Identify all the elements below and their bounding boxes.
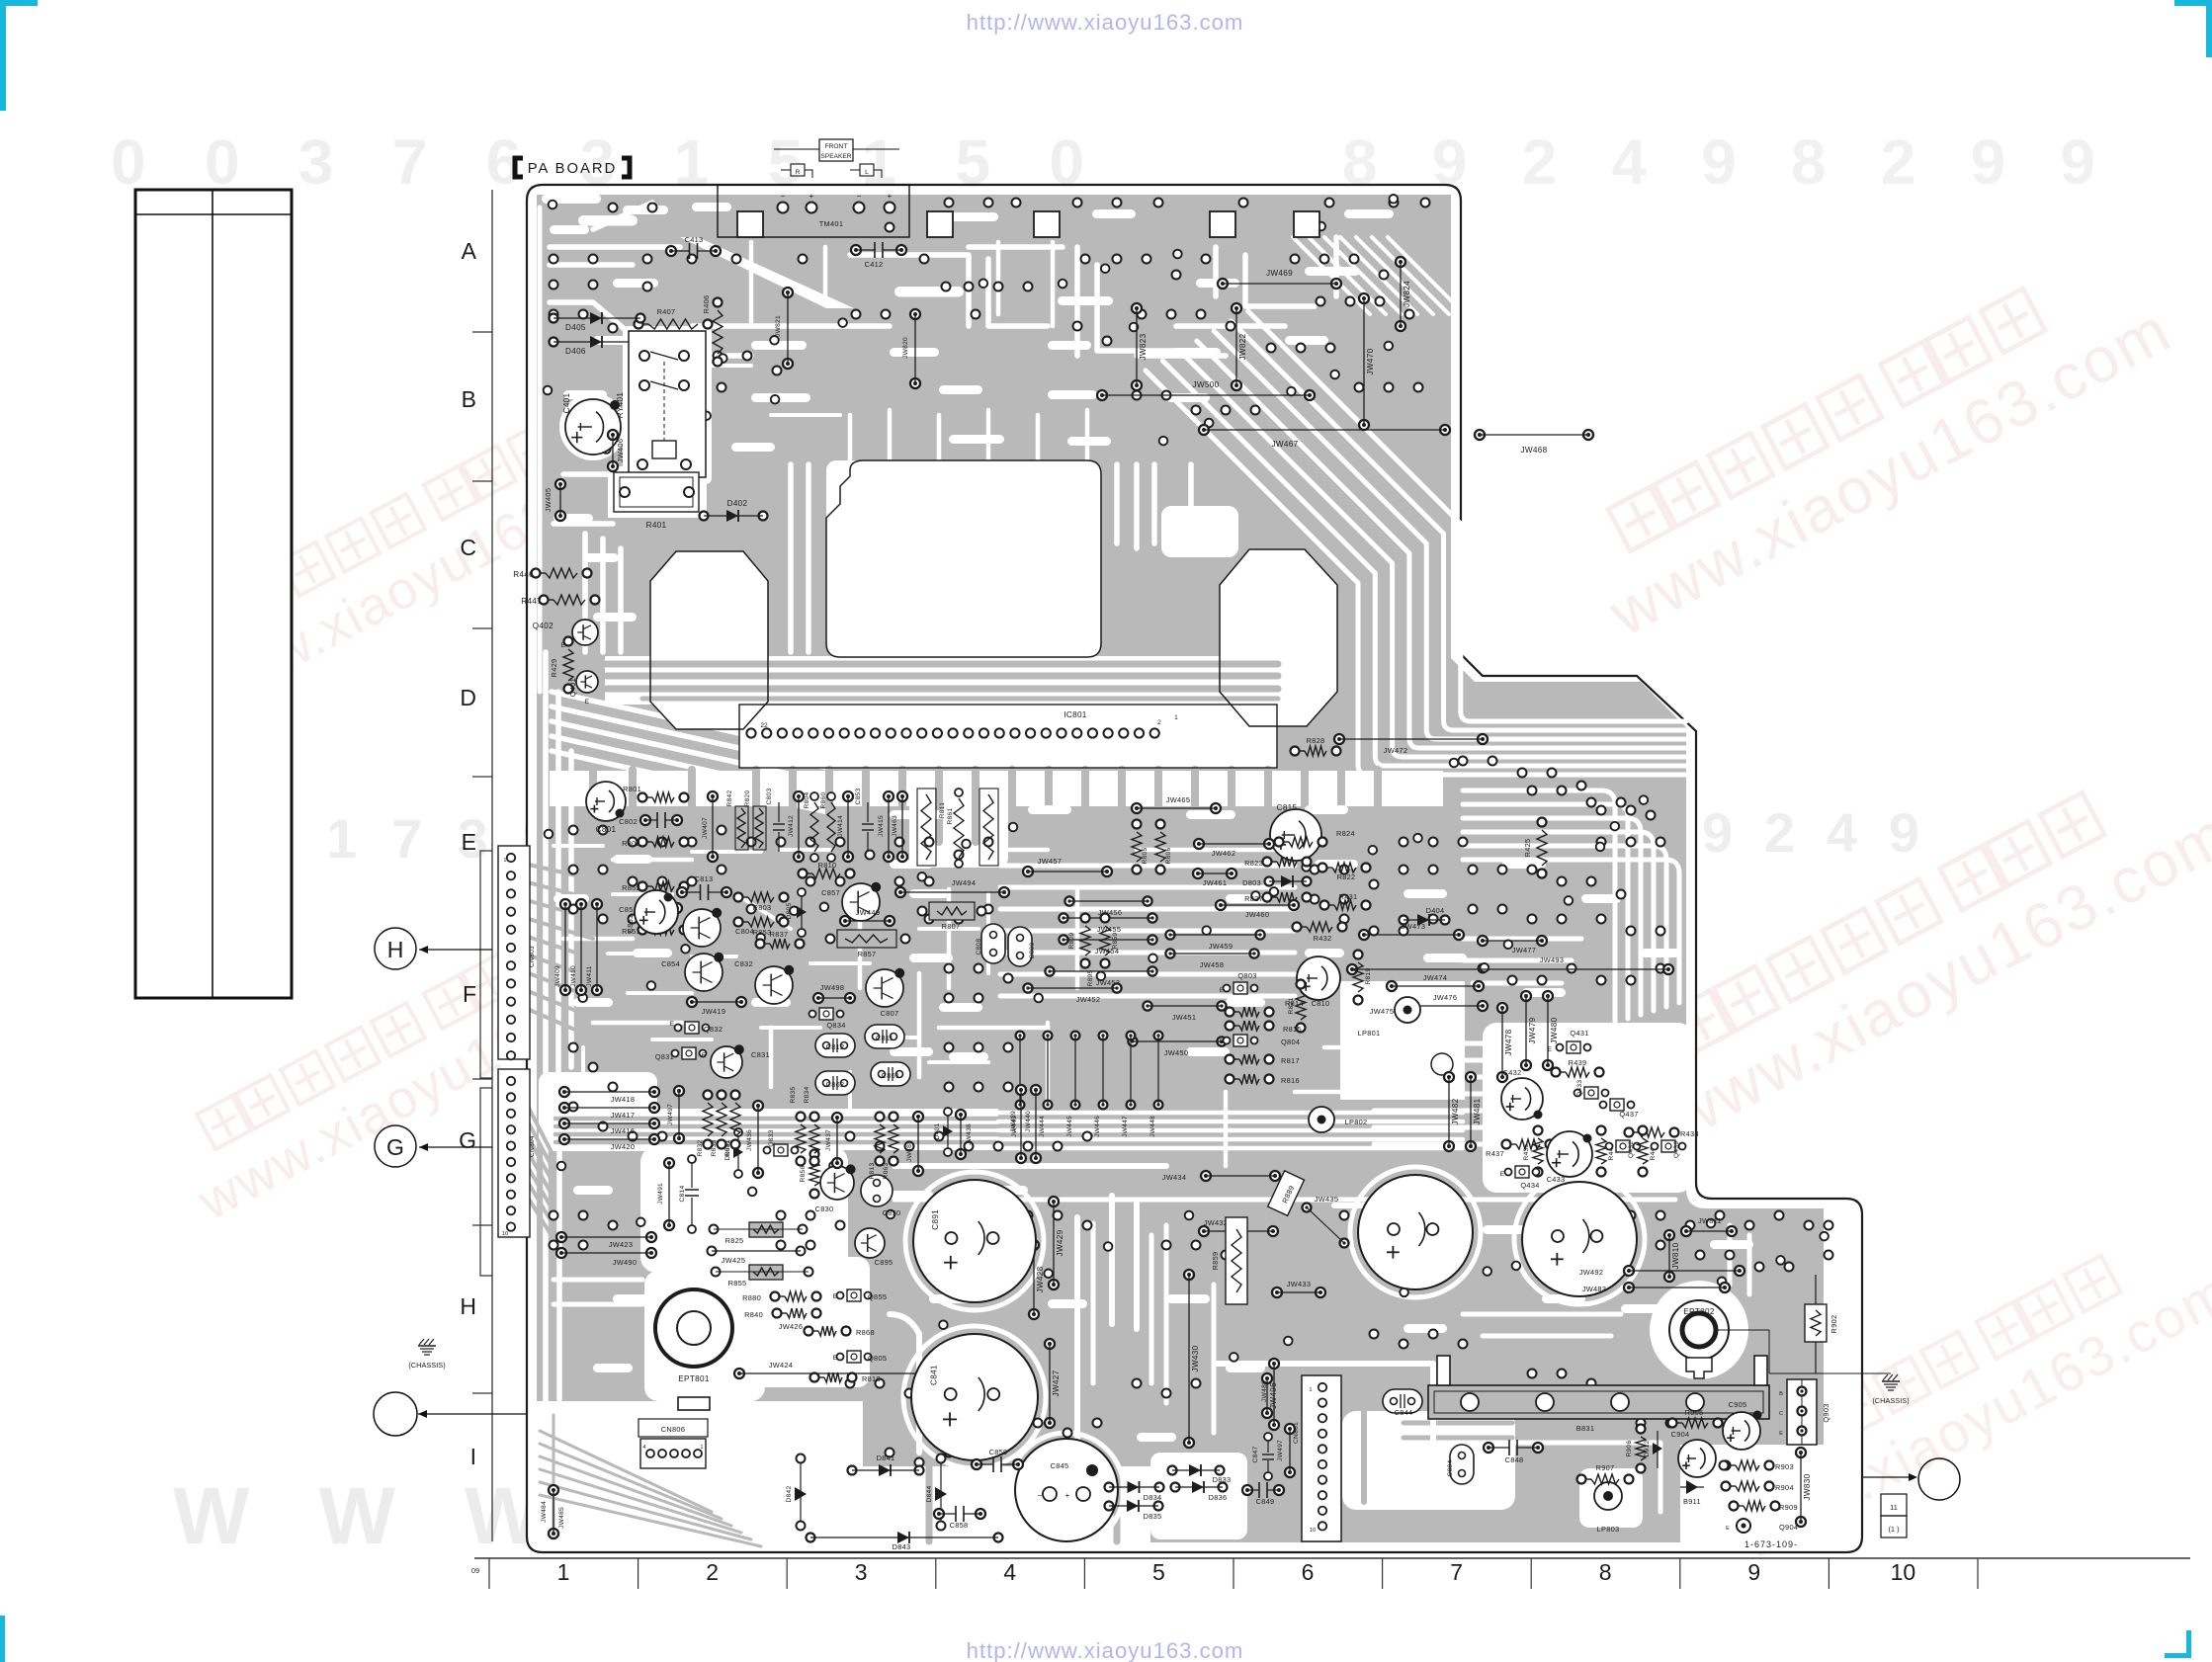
pot EPT801 [655, 1289, 732, 1367]
diode D404 [1400, 916, 1408, 925]
svg-text:LP803: LP803 [1597, 1525, 1620, 1534]
resistor R909 [1730, 1502, 1739, 1511]
svg-text:JW458: JW458 [1200, 960, 1225, 969]
resistor R828 [1291, 747, 1300, 756]
svg-text:E: E [585, 699, 590, 706]
resistor R807 [929, 902, 975, 920]
svg-text:5: 5 [1152, 1559, 1165, 1585]
jumper JW437 [832, 1113, 842, 1122]
svg-text:C849: C849 [1256, 1497, 1275, 1506]
svg-text:JW419: JW419 [702, 1007, 726, 1016]
svg-text:JW484: JW484 [541, 1501, 548, 1523]
transistor Q402 [572, 620, 598, 645]
svg-text:C851: C851 [626, 915, 635, 934]
capacitor C830 [820, 1166, 854, 1200]
capacitor C811 [865, 1025, 904, 1048]
svg-text:R806: R806 [1165, 847, 1172, 864]
svg-text:C844: C844 [1395, 1408, 1413, 1417]
svg-text:JW407: JW407 [702, 817, 709, 839]
callout circle bottom-left [374, 1392, 417, 1436]
chassis symbol right [1882, 1380, 1900, 1382]
diode D406 [550, 338, 558, 347]
capacitor C894 [1450, 1445, 1474, 1484]
svg-text:C854: C854 [661, 959, 680, 968]
svg-text:LP801: LP801 [1358, 1029, 1381, 1038]
pink watermark right upper [1568, 237, 2182, 649]
svg-text:JW418: JW418 [611, 1095, 636, 1104]
svg-text:Q805: Q805 [868, 1354, 887, 1363]
diode D841 [848, 1466, 857, 1475]
svg-text:JW810: JW810 [1671, 1242, 1680, 1269]
capacitor C854 [685, 954, 723, 991]
svg-text:JW490: JW490 [613, 1258, 638, 1267]
jumper JW477 [1478, 936, 1488, 946]
grid ruler bottom [474, 1557, 2190, 1559]
svg-text:E: E [1220, 1039, 1225, 1045]
capacitor C832 [755, 966, 793, 1004]
resistors R805 R806 [1133, 820, 1142, 829]
svg-text:JW478: JW478 [1504, 1029, 1513, 1055]
sheet boxes [1881, 1494, 1907, 1516]
svg-text:C848: C848 [1505, 1455, 1524, 1464]
jumper JW830 [1796, 1448, 1806, 1457]
pink watermark left lower [163, 887, 676, 1231]
jumper JW468 [1475, 430, 1485, 440]
svg-text:JW492: JW492 [1579, 1268, 1604, 1277]
svg-text:D841: D841 [877, 1454, 895, 1462]
relay RY401 [629, 331, 706, 477]
transistor Q439 [1661, 1140, 1675, 1152]
resistor R435 [1534, 1126, 1543, 1135]
svg-text:I: I [470, 1444, 476, 1469]
resistor R447 [540, 596, 549, 605]
jumper JW428 [1029, 1240, 1039, 1250]
svg-text:C808: C808 [976, 938, 982, 955]
svg-text:JW500: JW500 [1193, 380, 1220, 389]
svg-text:FRONT: FRONT [825, 143, 848, 150]
svg-text:R813: R813 [869, 1162, 876, 1179]
resistors R835 R834 [797, 1113, 806, 1122]
resistor R856 [810, 1150, 819, 1159]
resistor R816 [1226, 1075, 1234, 1084]
svg-text:G: G [386, 1134, 404, 1160]
svg-text:JW491: JW491 [657, 1183, 664, 1205]
svg-text:R909: R909 [1779, 1503, 1798, 1512]
lamp LP802 [1309, 1107, 1334, 1132]
pink watermark bottom right [1703, 1210, 2212, 1572]
jumper JW427 [1045, 1339, 1055, 1349]
trace separation channels [516, 194, 1753, 1547]
jumper JW429 [1049, 1197, 1059, 1206]
svg-text:1: 1 [1174, 714, 1178, 721]
svg-text:JW467: JW467 [1272, 440, 1299, 449]
resistor block R825 [749, 1222, 783, 1237]
capacitor C849 [1242, 1485, 1252, 1495]
svg-text:D: D [460, 685, 476, 710]
pink watermark mid [825, 675, 1338, 1019]
svg-text:Q402: Q402 [533, 622, 553, 630]
diode D804 [737, 1136, 739, 1170]
jumper JW460 [1216, 900, 1226, 910]
svg-text:Q401: Q401 [568, 678, 577, 697]
transistor Q831 [682, 1047, 696, 1059]
svg-text:C814: C814 [679, 1185, 686, 1202]
jumpers JW439 JW440 [1016, 1085, 1026, 1095]
svg-text:R816: R816 [1281, 1076, 1300, 1085]
svg-text:R852: R852 [622, 883, 640, 892]
resistor R821 [1297, 980, 1306, 989]
svg-text:R821: R821 [1288, 997, 1295, 1014]
svg-text:CN804: CN804 [529, 1135, 536, 1157]
resistor R441 [1639, 1126, 1648, 1135]
svg-text:JW425: JW425 [722, 1256, 746, 1265]
svg-text:JW475: JW475 [1370, 1007, 1395, 1016]
jumper group JW418 JW417 JW416 JW420 [559, 1087, 569, 1097]
svg-text:JW821: JW821 [775, 315, 782, 337]
svg-text:C830: C830 [815, 1205, 834, 1213]
jumper JW436 [753, 1101, 763, 1111]
jumper JW476 [1399, 1001, 1408, 1011]
svg-text:http://www.xiaoyu163.com: http://www.xiaoyu163.com [967, 1638, 1244, 1662]
capacitor C808 [981, 924, 1005, 963]
svg-text:(CHASSIS): (CHASSIS) [1872, 1396, 1909, 1405]
svg-text:6: 6 [1302, 1559, 1315, 1585]
svg-text:CN801: CN801 [1293, 1422, 1300, 1444]
svg-text:Q855: Q855 [868, 1292, 887, 1301]
svg-text:R406: R406 [702, 295, 711, 314]
svg-text:C862: C862 [826, 1080, 845, 1089]
svg-text:1-673-109-: 1-673-109- [1744, 1539, 1798, 1549]
resistor R904 [1722, 1482, 1731, 1491]
svg-text:G: G [459, 1127, 476, 1153]
svg-text:E: E [1548, 1046, 1553, 1053]
svg-text:JW438: JW438 [966, 1123, 973, 1145]
svg-text:D406: D406 [565, 347, 586, 356]
resistor R824 [1275, 838, 1284, 847]
jumper JW497b [1285, 1424, 1295, 1434]
jumper JW497 [674, 1086, 684, 1096]
capacitor bank right 1 [1358, 1175, 1473, 1289]
svg-text:−: − [780, 192, 785, 201]
svg-text:R446: R446 [513, 570, 534, 579]
svg-text:JW446: JW446 [1094, 1116, 1101, 1137]
terminal block TM401 [718, 185, 909, 237]
svg-text:H: H [460, 1293, 476, 1319]
diode D912 [1657, 1431, 1659, 1468]
jumper strip JW443-448 [1016, 1032, 1025, 1040]
cyan corner top-left [0, 0, 38, 111]
svg-text:JW451: JW451 [1172, 1013, 1197, 1022]
capacitor C844b [1383, 1389, 1422, 1413]
svg-text:C412: C412 [865, 260, 884, 269]
svg-text:1: 1 [1309, 1387, 1312, 1393]
svg-text:1: 1 [503, 858, 506, 864]
capacitor C848 [1484, 1443, 1493, 1453]
resistor R407 [635, 320, 643, 329]
svg-text:Q903: Q903 [1822, 1403, 1830, 1422]
svg-text:JW411: JW411 [586, 965, 593, 987]
capacitor C812 [815, 1034, 855, 1057]
resistor R852 [638, 882, 647, 891]
diode D844 [940, 1462, 942, 1522]
svg-text:2: 2 [706, 1559, 719, 1585]
svg-text:8: 8 [1599, 1559, 1612, 1585]
svg-text:R820: R820 [744, 789, 751, 806]
svg-text:JW457: JW457 [1038, 857, 1063, 866]
svg-text:R805: R805 [1142, 847, 1149, 864]
svg-text:JW470: JW470 [1366, 348, 1375, 374]
resistor R853 [734, 918, 743, 927]
svg-text:E: E [833, 1355, 838, 1362]
jumper JW811 [1681, 1226, 1691, 1236]
svg-text:JW823: JW823 [1139, 333, 1148, 360]
capacitor C413 [666, 246, 676, 256]
transistor Q433 [1584, 1087, 1598, 1099]
capacitor C810 [1297, 956, 1340, 1000]
mounting pads squares [737, 211, 763, 237]
diode cluster D833 D834 D835 D836 [1168, 1466, 1177, 1475]
svg-text:10: 10 [1891, 1559, 1916, 1585]
capacitor C858 [934, 1509, 944, 1519]
svg-text:R831: R831 [724, 1139, 731, 1156]
svg-text:IC801: IC801 [1063, 710, 1086, 719]
svg-text:R902: R902 [1829, 1315, 1838, 1334]
chassis symbol left [418, 1345, 436, 1347]
svg-text:D912: D912 [1644, 1440, 1651, 1456]
resistor R810 [799, 870, 808, 878]
jumper JW430 [1184, 1270, 1194, 1280]
svg-text:R810: R810 [818, 861, 837, 870]
jumper JW462 [1194, 839, 1204, 849]
transistor Q834 [819, 1008, 833, 1020]
svg-text:R859: R859 [1112, 932, 1119, 949]
resistors R813 R863 [876, 1113, 885, 1122]
svg-text:C894: C894 [1447, 1459, 1454, 1476]
jumper JW434 [1201, 1171, 1211, 1181]
svg-text:R842: R842 [726, 789, 733, 806]
transistor Q803 [1234, 982, 1247, 994]
svg-text:R822: R822 [1337, 873, 1356, 881]
svg-text:JW822: JW822 [1238, 333, 1247, 360]
jumper JW461 [1193, 869, 1203, 878]
svg-text:F: F [463, 981, 476, 1007]
svg-text:JW424: JW424 [769, 1361, 794, 1370]
svg-text:4: 4 [1003, 1559, 1016, 1585]
jumper JW823 [1132, 303, 1142, 313]
transistor Q805 [847, 1351, 861, 1363]
transistor Q855 [847, 1289, 861, 1301]
transistor Q434 [1515, 1166, 1529, 1178]
resistor R439 [1552, 1068, 1561, 1077]
svg-text:R434: R434 [1680, 1129, 1699, 1138]
resistor R809 [1081, 914, 1090, 923]
svg-text:R801: R801 [623, 785, 641, 793]
copper ground plane [537, 195, 1852, 1542]
svg-text:C845: C845 [1051, 1461, 1069, 1470]
svg-text:(1 ): (1 ) [1888, 1525, 1899, 1534]
resistor R859v [1226, 1217, 1247, 1304]
title PA BOARD [515, 158, 523, 177]
svg-text:R904: R904 [1775, 1483, 1794, 1492]
svg-text:JW824: JW824 [1403, 281, 1411, 307]
capacitor C895 [855, 1228, 885, 1258]
svg-text:R907: R907 [1596, 1463, 1615, 1472]
svg-text:SPEAKER: SPEAKER [820, 153, 851, 160]
svg-text:C809: C809 [1029, 942, 1036, 958]
svg-text:C905: C905 [1729, 1400, 1747, 1409]
svg-text:C803: C803 [766, 788, 773, 804]
svg-text:R817: R817 [1281, 1056, 1300, 1065]
resistor R822 [1319, 864, 1327, 873]
svg-text:LP802: LP802 [1345, 1118, 1368, 1126]
svg-text:2: 2 [1157, 719, 1161, 726]
svg-text:+: + [1064, 1491, 1069, 1500]
svg-text:JW430: JW430 [1191, 1345, 1200, 1371]
svg-text:C841: C841 [930, 1365, 939, 1385]
svg-text:C891: C891 [931, 1209, 940, 1230]
svg-text:C847: C847 [1252, 1446, 1259, 1462]
jumper JW472 [1334, 734, 1344, 744]
jumper JW457 [1023, 867, 1033, 876]
svg-text:L: L [865, 169, 869, 176]
capacitor C401 [565, 399, 621, 455]
svg-text:JW459: JW459 [1209, 942, 1234, 951]
svg-text:JW450: JW450 [1164, 1048, 1189, 1057]
svg-text:4: 4 [642, 1445, 645, 1451]
connector CN803 [498, 846, 530, 1059]
svg-text:JW426: JW426 [779, 1322, 804, 1331]
svg-text:JW469: JW469 [1266, 269, 1293, 278]
svg-text:TM401: TM401 [819, 219, 844, 228]
diode D401 [947, 1116, 949, 1148]
capacitor C851 [635, 890, 678, 934]
svg-text:C895: C895 [875, 1258, 893, 1267]
svg-text:JW439: JW439 [1010, 1111, 1017, 1132]
svg-text:E: E [1779, 1431, 1783, 1437]
jumper JW490 [556, 1248, 566, 1258]
svg-text:Q804: Q804 [1281, 1038, 1300, 1046]
svg-text:11: 11 [1890, 1503, 1898, 1512]
svg-text:D844: D844 [926, 1485, 933, 1502]
svg-text:B: B [462, 386, 476, 412]
svg-text:Q833: Q833 [768, 1129, 775, 1146]
svg-text:R447: R447 [521, 597, 542, 606]
resistor R818 [810, 1373, 819, 1382]
speaker terminal pads [778, 203, 789, 213]
speaker R terminal [791, 164, 805, 176]
svg-text:B: B [1779, 1391, 1783, 1397]
svg-text:R819: R819 [1365, 967, 1372, 984]
resistor R906 [1637, 1425, 1646, 1434]
svg-text:JW415: JW415 [878, 815, 885, 837]
capacitor C815 [1270, 809, 1321, 861]
resistor R406 [714, 298, 723, 307]
jumper JW492 [1624, 1266, 1634, 1276]
svg-text:R401: R401 [646, 521, 667, 530]
svg-text:1: 1 [557, 1559, 570, 1585]
capacitor C802 [640, 815, 650, 825]
svg-text:JW463: JW463 [892, 815, 898, 837]
svg-text:C801: C801 [596, 825, 617, 834]
svg-text:JW493: JW493 [1540, 956, 1565, 964]
via pads [544, 195, 1833, 1467]
capacitor C432 [1501, 1078, 1543, 1120]
svg-text:JW434: JW434 [1162, 1173, 1187, 1182]
resistor R801 [638, 793, 647, 802]
jumper JW488 [913, 1112, 923, 1122]
svg-text:R803: R803 [753, 903, 772, 912]
svg-text:D402: D402 [727, 499, 748, 508]
jumper JW405 [555, 479, 565, 489]
svg-text:R903: R903 [1775, 1462, 1794, 1471]
svg-text:JW479: JW479 [1528, 1017, 1537, 1043]
svg-text:R861: R861 [947, 807, 954, 824]
resistor block R401 [614, 472, 699, 512]
jumper JW473 [1359, 930, 1369, 940]
svg-text:C401: C401 [562, 392, 571, 413]
connector CN806 [638, 1419, 708, 1437]
speaker L terminal [860, 164, 874, 176]
svg-text:C904: C904 [1671, 1430, 1690, 1439]
jumper JW438 [956, 1110, 966, 1120]
svg-text:C: C [460, 535, 476, 560]
svg-text:JW429: JW429 [1056, 1229, 1064, 1256]
resistor R440 [1597, 1126, 1606, 1135]
transistor Q903 [1787, 1379, 1817, 1445]
resistor R819 [1354, 951, 1363, 959]
svg-text:JW477: JW477 [1512, 946, 1537, 955]
resistor block R855 [749, 1265, 783, 1280]
svg-text:3: 3 [855, 1559, 868, 1585]
jumper JW494 [895, 887, 905, 897]
capacitor C859 [972, 1459, 981, 1469]
diode D803 [1265, 877, 1274, 886]
svg-text:R860: R860 [820, 791, 827, 808]
svg-text:JW427: JW427 [1052, 1370, 1061, 1396]
svg-text:JW409: JW409 [554, 965, 561, 987]
svg-text:JW465: JW465 [1166, 795, 1191, 804]
resistor R907 [1577, 1475, 1586, 1484]
svg-text:EPT801: EPT801 [678, 1374, 710, 1383]
svg-text:JW436: JW436 [746, 1129, 753, 1151]
svg-text:JW406: JW406 [616, 439, 625, 463]
jumper JW820 [910, 309, 920, 319]
resistor R823 [1263, 858, 1272, 867]
svg-text:JW460: JW460 [1245, 910, 1270, 919]
svg-text:R432: R432 [1314, 934, 1332, 943]
jumper JW423 [556, 1232, 566, 1242]
capacitor C804 [683, 909, 721, 947]
resistor R425 [1538, 818, 1547, 827]
svg-text:C853: C853 [855, 788, 862, 804]
svg-text:C804: C804 [735, 927, 754, 936]
svg-text:JW417: JW417 [611, 1111, 636, 1120]
capacitor C807 [866, 969, 903, 1007]
svg-text:R863: R863 [883, 1162, 890, 1179]
svg-text:R859: R859 [1211, 1252, 1220, 1271]
svg-text:R818: R818 [862, 1374, 881, 1383]
jumper JW482 [1444, 1072, 1454, 1082]
jumper JW824 [1396, 257, 1405, 267]
svg-text:C811: C811 [876, 1034, 893, 1042]
svg-text:C813: C813 [695, 874, 714, 883]
svg-text:R828: R828 [1307, 736, 1325, 745]
resistor R903 [1722, 1461, 1731, 1470]
jumper JW474 [1387, 981, 1397, 991]
capacitor C809 [1008, 927, 1032, 966]
svg-text:JW414: JW414 [837, 815, 844, 837]
svg-text:C812: C812 [826, 1042, 845, 1051]
